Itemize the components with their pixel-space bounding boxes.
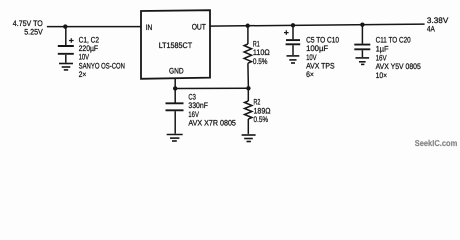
ground C11 bbox=[356, 58, 370, 65]
svg-text:4A: 4A bbox=[427, 24, 436, 33]
svg-text:OUT: OUT bbox=[192, 22, 206, 31]
junction GND/C3 bbox=[173, 86, 177, 90]
wire output rail bbox=[210, 24, 425, 26]
ground C3 bbox=[167, 135, 183, 142]
junction OUT/R1 bbox=[246, 24, 250, 28]
svg-text:16V: 16V bbox=[188, 110, 199, 119]
svg-text:0.5%: 0.5% bbox=[254, 115, 269, 124]
junction OUT/C5 bbox=[291, 23, 295, 27]
svg-text:AVX X7R 0805: AVX X7R 0805 bbox=[188, 119, 236, 128]
svg-text:189Ω: 189Ω bbox=[254, 106, 271, 115]
junction OUT/C11 bbox=[360, 22, 364, 26]
svg-text:220µF: 220µF bbox=[79, 44, 99, 53]
svg-text:C5 TO C10: C5 TO C10 bbox=[306, 35, 339, 44]
svg-text:C11 TO C20: C11 TO C20 bbox=[376, 36, 412, 45]
wire GND to R1/R2 node bbox=[175, 87, 248, 89]
regulator U1 LT1585CT bbox=[141, 10, 210, 79]
svg-text:AVX Y5V 0805: AVX Y5V 0805 bbox=[376, 62, 422, 71]
svg-text:LT1585CT: LT1585CT bbox=[159, 41, 193, 50]
node VIN label 4.75V TO 5.25V bbox=[13, 19, 44, 36]
resistor R1 bbox=[244, 26, 251, 89]
svg-text:10V: 10V bbox=[306, 53, 317, 62]
svg-text:1µF: 1µF bbox=[376, 45, 389, 54]
junction input/C1 bbox=[63, 24, 67, 28]
svg-text:16V: 16V bbox=[376, 53, 388, 62]
resistor R2 bbox=[245, 88, 252, 134]
svg-text:C3: C3 bbox=[188, 92, 196, 101]
svg-text:330nF: 330nF bbox=[188, 101, 208, 110]
svg-text:100µF: 100µF bbox=[306, 44, 328, 53]
C5-C10 value label bbox=[306, 35, 339, 79]
R2 value label bbox=[254, 98, 271, 124]
svg-text:SeekIC.com: SeekIC.com bbox=[415, 138, 458, 148]
svg-text:10×: 10× bbox=[376, 71, 388, 80]
svg-text:R1: R1 bbox=[253, 39, 260, 48]
ground C1 bbox=[59, 64, 73, 70]
svg-text:R2: R2 bbox=[254, 98, 261, 107]
svg-text:GND: GND bbox=[169, 66, 184, 75]
node VOUT label 3.38V 4A bbox=[427, 16, 449, 33]
svg-text:C1, C2: C1, C2 bbox=[79, 35, 100, 44]
wire input rail bbox=[47, 26, 141, 28]
C3 value label bbox=[188, 92, 236, 127]
C1,C2 value label bbox=[79, 35, 126, 79]
svg-text:110Ω: 110Ω bbox=[253, 48, 270, 57]
svg-text:5.25V: 5.25V bbox=[24, 27, 43, 36]
svg-text:SANYO OS-CON: SANYO OS-CON bbox=[79, 61, 126, 70]
svg-text:6×: 6× bbox=[306, 70, 314, 79]
svg-text:IN: IN bbox=[146, 23, 153, 32]
wire GND pin down bbox=[174, 78, 176, 102]
capacitor C1,C2 bbox=[58, 27, 74, 63]
capacitor C3 bbox=[166, 103, 184, 133]
svg-text:AVX TPS: AVX TPS bbox=[306, 62, 335, 71]
ground R2 bbox=[242, 135, 256, 142]
C11-C20 value label bbox=[376, 36, 422, 80]
ground C5 bbox=[287, 56, 300, 63]
R1 value label bbox=[253, 39, 270, 65]
capacitor C11-C20 bbox=[354, 25, 370, 57]
svg-text:10V: 10V bbox=[79, 53, 90, 62]
capacitor C5-C10 bbox=[284, 25, 300, 55]
svg-text:2×: 2× bbox=[79, 70, 87, 79]
junction R1/R2 bbox=[246, 86, 250, 90]
svg-text:0.5%: 0.5% bbox=[253, 57, 268, 66]
